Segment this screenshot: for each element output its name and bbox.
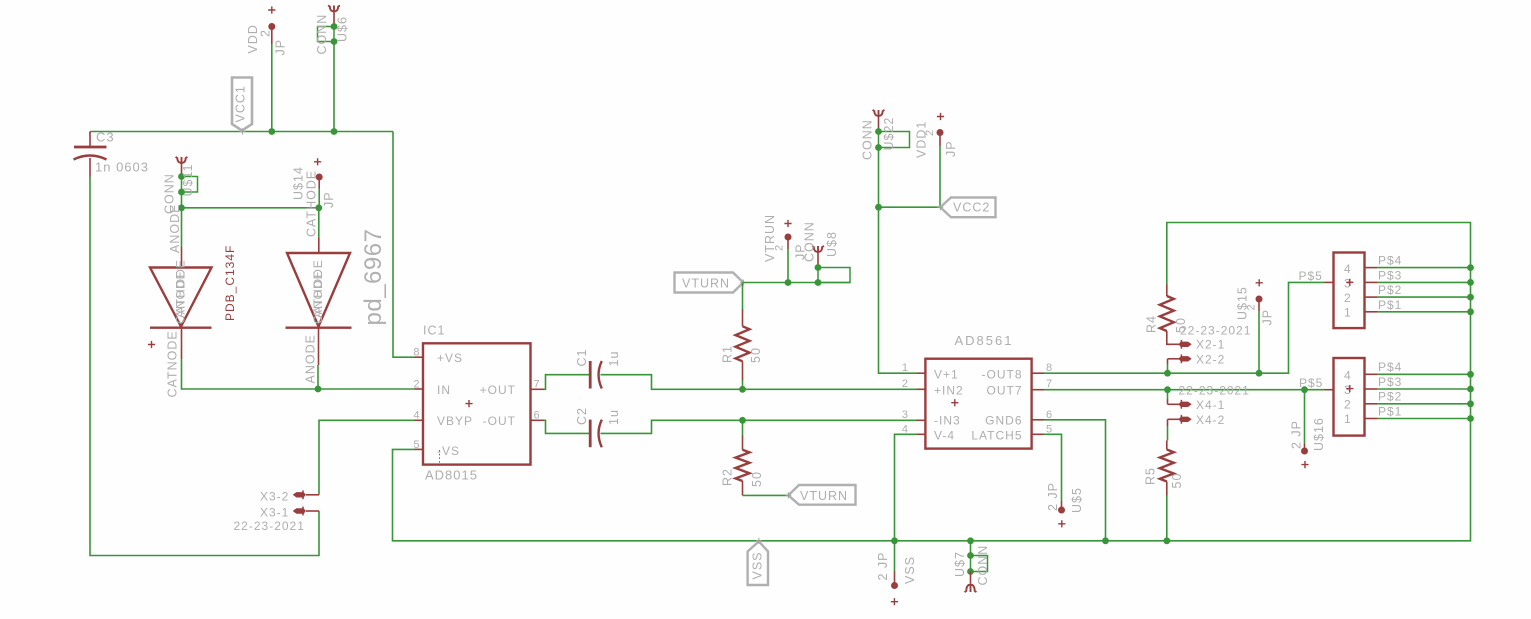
pin stub R1 top (742, 309, 744, 326)
dotted mark IC1 (439, 450, 441, 464)
svg-text:LATCH5: LATCH5 (971, 429, 1022, 443)
pin stub JP VDD1 (939, 133, 941, 147)
pin stub JP U$14 (318, 177, 320, 189)
svg-text:CONN: CONN (803, 221, 817, 262)
wire X4-1 from net (1167, 390, 1169, 399)
svg-text:V+1: V+1 (934, 368, 959, 382)
svg-text:VTURN: VTURN (800, 489, 848, 503)
pin stub JP U$16 (1304, 444, 1306, 449)
svg-text:VBYP: VBYP (437, 414, 473, 428)
svg-text:1: 1 (902, 362, 909, 374)
flag tip mark VCC2 (937, 204, 943, 210)
antenna symbol U$22 (873, 110, 885, 117)
junction bus J1 P$3 (1467, 279, 1474, 286)
resistor R5 (1160, 450, 1174, 482)
pin junction U$6 a (331, 23, 338, 30)
svg-text:AD8561: AD8561 (955, 333, 1014, 348)
pin stub U$8 (817, 253, 819, 268)
pin stub AD8561 1 (917, 372, 926, 374)
svg-text:3: 3 (1344, 277, 1352, 291)
pin dot VSS JP (891, 582, 898, 589)
plus JP U$14 (314, 158, 321, 165)
pin stub IC1 4 (415, 419, 424, 421)
pin X4-2 (1168, 418, 1181, 420)
svg-text:P$2: P$2 (1378, 283, 1402, 297)
svg-text:ANODE: ANODE (168, 204, 182, 253)
svg-text:-OUT: -OUT (483, 414, 516, 428)
svg-text:VDD1: VDD1 (915, 121, 929, 158)
junction R1 bottom (739, 386, 746, 393)
wire J1 P$3 (1377, 281, 1471, 283)
pin junction U$22 a (875, 128, 882, 135)
svg-text:C2: C2 (575, 407, 589, 425)
pin stub AD8561 8 (1032, 372, 1044, 374)
svg-text:X4-1: X4-1 (1196, 398, 1225, 412)
junction VSS rail V-4 (891, 537, 898, 544)
svg-text:VCC2: VCC2 (953, 201, 990, 215)
wire U$22 to V+ net (879, 148, 917, 374)
svg-text:JP: JP (322, 191, 336, 208)
svg-text:2: 2 (902, 378, 909, 390)
svg-text:X2-1: X2-1 (1196, 338, 1225, 352)
capacitor C2 (589, 420, 592, 448)
wire IC1 -OUT to C2 (544, 420, 589, 433)
svg-text:C1: C1 (575, 349, 589, 367)
svg-text:X4-2: X4-2 (1196, 413, 1225, 427)
plus JP U$5 (1058, 520, 1065, 527)
svg-text:P$1: P$1 (1378, 298, 1402, 312)
svg-text:OUT7: OUT7 (986, 384, 1022, 398)
plus JP VDD1 (937, 113, 944, 120)
pin stub AD8561 5 (1032, 433, 1044, 435)
diode D2 pd_6967 (318, 238, 320, 253)
wire R5 to VSS rail (1166, 496, 1168, 541)
junction U$16 branch (1301, 386, 1308, 393)
svg-text:+OUT: +OUT (480, 383, 516, 397)
wire to diode D1 anode (181, 208, 183, 247)
pin X2-2 link (1167, 359, 1169, 364)
pin stub JP U$15 (1258, 299, 1260, 311)
pin dot JP U$14 (316, 174, 323, 181)
svg-text:CONN: CONN (315, 14, 329, 55)
svg-text:22-23-2021: 22-23-2021 (1179, 384, 1250, 398)
wire JP VTRUN down (787, 249, 789, 283)
svg-text:3: 3 (902, 409, 909, 421)
svg-text:CATHODE: CATHODE (305, 170, 319, 237)
wire VSS JP down (894, 541, 896, 572)
antenna symbol U$7 (965, 584, 977, 592)
junction bus J2 P$3 (1467, 386, 1474, 393)
pin X2-1 (1167, 343, 1180, 345)
svg-text:U$16: U$16 (1312, 417, 1326, 451)
pin stub J2 P$1 (1365, 418, 1378, 420)
pin stub U$6 (333, 12, 335, 27)
wire bus to IC1 +VS (393, 132, 415, 358)
svg-text:CONN: CONN (861, 119, 875, 160)
node cathode junction (315, 204, 322, 211)
junction VSS rail U$7 (967, 537, 974, 544)
svg-text:8: 8 (1046, 362, 1053, 374)
junction bus U$6 (331, 128, 338, 135)
plus IC1 origin (465, 400, 472, 407)
pin stub J1 P$2 (1365, 296, 1378, 298)
pin junction U$11 a (178, 173, 185, 180)
svg-text:50: 50 (749, 347, 763, 363)
junction VTURN net a (785, 279, 792, 286)
wire X3-2 to VBYP (319, 420, 415, 495)
junction bus J2 P$4 (1467, 371, 1474, 378)
capacitor C1 (589, 361, 592, 389)
pin stub J1 P$3 (1365, 281, 1378, 283)
pin stub U$7 (970, 572, 972, 584)
wire -OUT8 net (1044, 282, 1325, 373)
svg-text:2 JP: 2 JP (1290, 420, 1304, 449)
svg-text:3: 3 (1344, 383, 1352, 397)
plus J1 origin (1346, 279, 1353, 286)
wire X2-2 to net (1167, 364, 1169, 373)
svg-text:P$1: P$1 (1378, 405, 1402, 419)
junction bus J1 P$2 (1467, 294, 1474, 301)
svg-text:X2-2: X2-2 (1196, 352, 1225, 366)
antenna symbol U$6 (328, 5, 340, 12)
wire GND6 to VSS rail (1044, 420, 1106, 541)
svg-text:P$5: P$5 (1299, 269, 1323, 283)
svg-text:U$5: U$5 (1070, 487, 1084, 513)
pin stub R4 bottom (1166, 331, 1168, 341)
pin stub J2 P$3 (1365, 388, 1378, 390)
pin dot JP VDD1 (937, 129, 944, 136)
wire C1 to +IN net (601, 375, 917, 390)
junction bus J1 P$1 (1467, 308, 1474, 315)
comparator U1 AD8561 body (925, 359, 1031, 449)
svg-text:2 JP: 2 JP (876, 551, 890, 580)
connector body U$8 (818, 268, 850, 283)
resistor R1 (736, 326, 750, 361)
connector J2 body (1334, 358, 1365, 436)
svg-text:U$11: U$11 (181, 164, 195, 197)
svg-text:P$3: P$3 (1378, 375, 1402, 389)
wire VCC2 flag link (879, 206, 941, 208)
wire J1 P$2 (1377, 296, 1471, 298)
pin stub AD8561 3 (917, 419, 926, 421)
junction VSS rail GND6 (1102, 537, 1109, 544)
plus J2 origin (1346, 385, 1353, 392)
pin stub J1 P$4 (1365, 267, 1378, 269)
svg-text:2: 2 (413, 379, 420, 391)
svg-text:X3-1: X3-1 (260, 506, 289, 520)
svg-text:P$3: P$3 (1378, 269, 1402, 283)
svg-text:IN: IN (437, 383, 451, 397)
svg-text:1u: 1u (607, 409, 621, 425)
flag tip mark VTURN lower (785, 492, 791, 498)
svg-text:VTURN: VTURN (682, 277, 730, 291)
junction bus J1 P$4 (1467, 264, 1474, 271)
svg-text:C3: C3 (96, 130, 115, 145)
antenna symbol U$8 (812, 246, 824, 253)
wire J2 P$4 (1377, 373, 1471, 375)
wire C3 top lead (89, 132, 91, 134)
svg-text:6: 6 (534, 410, 541, 422)
flag tip mark VCC1 (240, 129, 246, 135)
diode D1 PDB_C134F (181, 247, 183, 267)
wire VTURN net (743, 282, 850, 284)
pin stub J2 P$5 (1325, 389, 1334, 391)
pin stub JP U$5 (1061, 501, 1063, 508)
pin stub AD8561 4 (917, 433, 926, 435)
pin junction U$8 b (815, 279, 822, 286)
pin stub IC1 8 (415, 356, 424, 358)
pin stub J1 P$5 (1325, 281, 1334, 283)
junction VCC2 net (875, 204, 882, 211)
flag tip mark VSS (756, 538, 762, 544)
wire U$7 down (970, 541, 972, 556)
wire JP U$15 down (1258, 311, 1260, 373)
svg-text:-IN3: -IN3 (934, 414, 961, 428)
svg-text:P$5: P$5 (1299, 376, 1323, 390)
flag VCC2 (940, 198, 995, 218)
junction U$15 branch (1256, 370, 1263, 377)
svg-text:2: 2 (1344, 291, 1352, 305)
svg-text:4: 4 (413, 410, 420, 422)
junction VSS rail R5 (1163, 537, 1170, 544)
pin stub AD8561 2 (917, 388, 926, 390)
svg-text:X3-2: X3-2 (260, 490, 289, 504)
svg-text:U$14: U$14 (292, 166, 306, 200)
pin stub R1 bottom (742, 361, 744, 380)
op-amp IC1 AD8015 body (423, 343, 531, 464)
wire JP U$16 down (1304, 390, 1306, 444)
svg-text:22-23-2021: 22-23-2021 (234, 519, 305, 533)
capacitor C3 (89, 132, 91, 177)
svg-text:IC1: IC1 (423, 324, 445, 338)
pin stub AD8561 6 (1032, 419, 1044, 421)
svg-text:P$2: P$2 (1378, 390, 1402, 404)
connector J1 body (1334, 253, 1365, 329)
pin junction U$7 b (967, 568, 974, 575)
svg-text:-VS: -VS (437, 444, 460, 458)
svg-text:2: 2 (1246, 303, 1258, 310)
wire D2 to IN net (317, 365, 319, 389)
wire OUT7 net (1044, 389, 1325, 391)
svg-text:2: 2 (924, 129, 936, 136)
pin stub IC1 6 (531, 419, 545, 421)
junction IN net (315, 386, 322, 393)
junction X4-1 branch (1164, 386, 1171, 393)
resistor R2 (736, 450, 750, 481)
junction bus J2 P$2 (1467, 400, 1474, 407)
wire JP VDD1 down (939, 146, 941, 207)
svg-text:JP: JP (944, 140, 958, 157)
pin stub R4 top (1166, 285, 1168, 297)
svg-text:CONN: CONN (976, 545, 990, 586)
pin stub J2 P$2 (1365, 403, 1378, 405)
plus VSS JP (891, 598, 898, 605)
pin stub JP VDD (271, 27, 273, 44)
resistor R4 (1160, 296, 1174, 331)
junction bus VDD (268, 128, 275, 135)
svg-text:P$4: P$4 (1378, 360, 1402, 374)
svg-text:VCC1: VCC1 (234, 85, 248, 122)
pin stub R5 top (1166, 441, 1168, 450)
plus JP U$16 (1301, 461, 1308, 468)
svg-text:2 JP: 2 JP (1046, 482, 1060, 511)
pin stub IC1 7 (531, 388, 545, 390)
svg-text:4: 4 (1344, 369, 1352, 383)
wire D1 cathode down (182, 359, 319, 389)
pin stub R5 bottom (1166, 482, 1168, 496)
pin stub U$22 (878, 117, 880, 132)
supply flag VCC1 (232, 78, 252, 131)
svg-text:1: 1 (1344, 412, 1352, 426)
pin dot JP VDD (268, 23, 275, 30)
node anode junction (178, 204, 185, 211)
junction R2 top (739, 417, 746, 424)
wire IN net to IC1 (318, 388, 415, 390)
svg-text:VTRUN: VTRUN (763, 214, 777, 262)
wire C2 to -IN net (601, 420, 917, 433)
wire IC1 -VS to VSS rail (393, 223, 1471, 541)
svg-text:50: 50 (1170, 473, 1184, 489)
pin stub R2 bottom (742, 481, 744, 495)
pin junction U$11 b (178, 189, 185, 196)
wire J2 P$2 (1377, 403, 1471, 405)
svg-text:AD8015: AD8015 (425, 468, 478, 483)
junction X2-2 branch (1164, 370, 1171, 377)
wire C3 to bottom loop (90, 177, 319, 556)
svg-text:ANODE: ANODE (304, 334, 318, 383)
pin dot JP VTRUN (785, 234, 792, 241)
wire J1 P$4 (1377, 267, 1471, 269)
pin X3-1 (306, 510, 319, 512)
connector body U$6 (318, 27, 335, 42)
svg-text:U$7: U$7 (953, 551, 967, 577)
pin X2-1 link (1167, 341, 1170, 345)
plus D1 (148, 341, 155, 348)
pin stub JP VTRUN (787, 237, 789, 249)
svg-text:VSS: VSS (751, 551, 765, 579)
svg-text:VDD: VDD (246, 24, 260, 53)
flag tip mark VTURN upper (740, 280, 746, 286)
pin X4-2 link (1167, 419, 1169, 426)
svg-text:pd_6967: pd_6967 (360, 229, 387, 326)
flag VTURN lower (788, 485, 855, 505)
svg-text:R2: R2 (721, 468, 735, 486)
wire IC1 +OUT to C1 (544, 375, 589, 390)
svg-text:U$22: U$22 (882, 117, 896, 151)
pin junction U$6 b (331, 38, 338, 45)
wire JP VDD to bus (271, 44, 273, 132)
svg-text:-OUT8: -OUT8 (982, 368, 1023, 382)
svg-text:ANODE: ANODE (174, 270, 188, 318)
antenna symbol U$11 (176, 157, 188, 164)
wire LATCH5 to JP U$5 (1044, 434, 1062, 501)
svg-text:R5: R5 (1144, 467, 1158, 485)
svg-text:7: 7 (534, 379, 541, 391)
connector body U$22 (879, 132, 910, 148)
junction bus J2 P$1 (1467, 415, 1474, 422)
pin X3-2 (306, 494, 319, 496)
supply flag VSS (748, 541, 768, 585)
svg-text:U$15: U$15 (1236, 286, 1250, 320)
svg-text:GND6: GND6 (985, 414, 1022, 428)
pin dot JP U$16 (1301, 448, 1308, 455)
wire V-4 to VSS rail (895, 434, 917, 541)
pin stub J1 P$1 (1365, 311, 1378, 313)
pin junction U$7 a (967, 552, 974, 559)
wire VTURN to R1 (742, 283, 744, 310)
plus AD8561 origin (951, 399, 958, 406)
pin stub IC1 5 (415, 448, 424, 450)
pin dot JP U$15 (1256, 296, 1263, 303)
pin stub J2 P$4 (1365, 373, 1378, 375)
svg-text:4: 4 (1344, 262, 1352, 276)
plus JP U$15 (1256, 279, 1263, 286)
pin X4-1 link (1167, 399, 1169, 404)
svg-text:P$4: P$4 (1378, 254, 1402, 268)
svg-text:V-4: V-4 (934, 429, 955, 443)
pin junction U$8 a (815, 264, 822, 271)
svg-text:22-23-2021: 22-23-2021 (1180, 324, 1251, 338)
svg-text:VSS: VSS (903, 556, 917, 584)
svg-text:7: 7 (1046, 378, 1053, 390)
svg-text:R1: R1 (721, 345, 735, 363)
pin stub AD8561 7 (1032, 389, 1044, 391)
pin X4-1 (1168, 403, 1181, 405)
pin X2-2 (1168, 358, 1181, 360)
wire J2 P$1 (1377, 418, 1471, 420)
svg-text:2: 2 (1344, 398, 1352, 412)
wire R2 to VTURN lower (743, 494, 789, 496)
wire J2 P$3 (1377, 388, 1471, 390)
svg-text:JP: JP (1261, 309, 1275, 326)
svg-text:JP: JP (274, 39, 288, 56)
svg-text:50: 50 (750, 471, 764, 487)
svg-text:2: 2 (774, 244, 786, 251)
wire VCC1 bus (90, 131, 393, 133)
pin stub VSS JP (894, 572, 896, 583)
svg-text:U$6: U$6 (336, 16, 350, 42)
svg-text:1: 1 (1344, 306, 1352, 320)
svg-text:+IN2: +IN2 (934, 384, 964, 398)
svg-text:1n 0603: 1n 0603 (95, 160, 149, 175)
pin stub U$11 (181, 164, 183, 177)
wire J1 P$1 (1377, 311, 1471, 313)
wire R1 to +IN net (742, 381, 744, 390)
svg-text:CATNODE: CATNODE (166, 330, 180, 397)
pin dot JP U$5 (1058, 507, 1065, 514)
svg-text:2: 2 (259, 29, 273, 37)
flag VTURN upper (675, 273, 744, 293)
wire U$11 down (181, 192, 183, 208)
wire JP U$14 down (318, 189, 320, 208)
pin stub R2 top (742, 436, 744, 450)
wire U$6 to bus (333, 42, 335, 132)
svg-text:+VS: +VS (437, 351, 463, 365)
plus JP VDD (268, 6, 275, 13)
wire R2 from -OUT net (742, 420, 744, 435)
pin stub IC1 2 (415, 388, 424, 390)
pin junction U$22 b (875, 144, 882, 151)
svg-text:ANODE: ANODE (311, 270, 325, 318)
svg-text:1u: 1u (607, 351, 621, 367)
wire X4-2 to R5 (1167, 427, 1169, 441)
svg-text:PDB_C134F: PDB_C134F (223, 245, 237, 321)
wire to diode D2 (318, 208, 320, 238)
connector body U$7 (971, 556, 988, 572)
plus JP VTRUN (784, 220, 791, 227)
connector body U$11 (182, 177, 198, 193)
wire anode to cathode net (182, 207, 319, 209)
